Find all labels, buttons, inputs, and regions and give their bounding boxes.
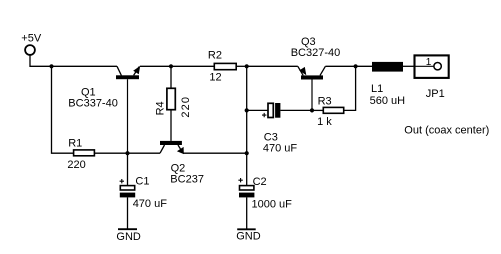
wire down to C2 xyxy=(246,153,248,185)
C1 label xyxy=(133,176,168,211)
node L1 junction xyxy=(354,64,358,68)
connector JP1 xyxy=(415,55,449,78)
resistor R3 xyxy=(323,107,343,113)
JP1 pin 1 label xyxy=(426,57,432,68)
svg-text:GND: GND xyxy=(236,230,261,242)
svg-text:1 k: 1 k xyxy=(317,116,332,128)
svg-text:220: 220 xyxy=(67,159,85,171)
resistor R4 xyxy=(167,88,175,109)
svg-text:L1: L1 xyxy=(371,83,383,95)
C3 label xyxy=(263,131,298,154)
inductor L1 xyxy=(372,62,403,72)
R2 value 12 xyxy=(209,71,221,83)
wire node to R3 xyxy=(312,109,323,111)
resistor R2 xyxy=(214,63,236,69)
svg-text:R2: R2 xyxy=(208,50,222,62)
svg-text:JP1: JP1 xyxy=(426,88,445,100)
Q3 label xyxy=(291,36,341,59)
R3 label xyxy=(318,95,332,107)
L1 label xyxy=(370,83,406,107)
wire C3 tap down to emitter wire xyxy=(246,110,248,153)
wire C3 to Q3 base node xyxy=(280,109,312,111)
wire rail to Q1 collector xyxy=(52,65,118,67)
wire R4 bottom to Q2 base xyxy=(170,111,172,141)
wire R4 top lead xyxy=(170,66,172,87)
node R2 right junction xyxy=(245,64,249,68)
resistor R1 xyxy=(74,150,95,156)
GND label (C2) xyxy=(236,230,261,242)
R4 label (rotated) xyxy=(154,101,166,115)
svg-text:BC327-40: BC327-40 xyxy=(291,47,341,59)
wire node to Q3 emitter xyxy=(247,65,298,67)
wire L1 to JP1 xyxy=(403,65,415,67)
svg-text:BC237: BC237 xyxy=(170,173,204,185)
C2 label xyxy=(252,176,293,211)
+5V supply terminal xyxy=(25,45,35,55)
svg-text:GND: GND xyxy=(116,231,140,243)
ground symbol (C2) xyxy=(237,228,256,230)
wire Q1 emitter to R4 node xyxy=(140,65,214,67)
svg-text:Out (coax center): Out (coax center) xyxy=(404,125,489,137)
wire R2 to node xyxy=(237,65,247,67)
svg-text:R3: R3 xyxy=(318,95,332,107)
wire base node to Q2 collector xyxy=(128,152,161,154)
Q1 label xyxy=(68,86,118,109)
wire Q3 collector to L1 node xyxy=(325,65,372,67)
wire base node down to C1 xyxy=(127,153,129,185)
node rail/R1 junction xyxy=(49,64,53,68)
JP1 label xyxy=(426,88,445,100)
node Q3 base junction xyxy=(310,108,314,112)
+5V label xyxy=(21,32,42,44)
svg-text:1: 1 xyxy=(426,57,432,68)
svg-text:1000 uF: 1000 uF xyxy=(252,198,293,210)
R1 label xyxy=(68,137,82,149)
wire R3 right up to rail xyxy=(345,66,356,110)
svg-text:12: 12 xyxy=(209,71,221,83)
wire +5V to rail corner xyxy=(30,55,52,66)
node Q1 base / C1 junction xyxy=(125,151,129,155)
wire +5V node down to R1 xyxy=(52,66,74,153)
svg-text:R4: R4 xyxy=(154,101,166,115)
node C2 top junction xyxy=(245,151,249,155)
svg-text:C1: C1 xyxy=(135,176,149,188)
wire Q2 emitter to C2 node xyxy=(183,152,247,154)
transistor Q2 xyxy=(160,141,184,154)
svg-text:R1: R1 xyxy=(68,137,82,149)
capacitor C2 xyxy=(238,178,254,229)
node R4 top junction xyxy=(169,64,173,68)
wire C3 left lead xyxy=(247,109,268,111)
svg-text:470 uF: 470 uF xyxy=(133,198,168,210)
svg-text:C2: C2 xyxy=(253,176,267,188)
R2 label xyxy=(208,50,222,62)
svg-text:470 uF: 470 uF xyxy=(263,143,298,155)
svg-text:BC337-40: BC337-40 xyxy=(68,98,118,110)
GND label (C1) xyxy=(116,231,140,243)
annotation Out (coax center) xyxy=(404,125,489,137)
R3 value 1 k xyxy=(317,116,332,128)
node C3 tap junction xyxy=(245,108,249,112)
capacitor C1 xyxy=(120,179,136,229)
svg-text:220: 220 xyxy=(180,96,192,118)
svg-text:+5V: +5V xyxy=(21,32,42,44)
svg-text:C3: C3 xyxy=(264,131,278,143)
capacitor C3 xyxy=(262,103,280,118)
svg-text:560 uH: 560 uH xyxy=(370,95,406,107)
transistor Q3 xyxy=(298,66,326,110)
R4 value 220 (rotated) xyxy=(180,96,192,118)
Q2 label xyxy=(170,163,204,186)
wire R1 to base node xyxy=(95,152,128,154)
wire node down to C3 tap xyxy=(246,66,248,110)
R1 value 220 xyxy=(67,159,85,171)
transistor Q1 xyxy=(116,66,140,153)
ground symbol (C1) xyxy=(118,228,137,230)
